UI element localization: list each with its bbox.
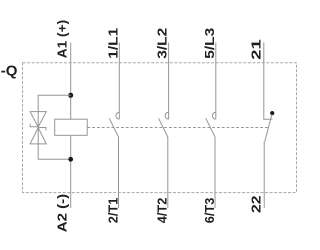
- svg-text:1/L1: 1/L1: [105, 28, 120, 59]
- svg-text:2/T1: 2/T1: [105, 198, 120, 224]
- node: junction A1/suppressor: [68, 93, 73, 98]
- main contact pole 3: fixed contact hook: [212, 112, 215, 119]
- coil A1-A2: [55, 119, 87, 135]
- main contact pole 1: lower terminal wire to 2/T1: [118, 137, 120, 208]
- wire A1 to coil: [70, 43, 72, 120]
- mechanical linkage (dashed): [87, 127, 268, 129]
- svg-text:4/T2: 4/T2: [155, 198, 170, 224]
- main contact pole 1: fixed contact hook: [116, 112, 119, 119]
- main contact pole 2: lower terminal wire to 4/T2: [167, 137, 169, 208]
- svg-text:5/L3: 5/L3: [202, 28, 217, 59]
- wire coil to A2: [70, 135, 72, 208]
- svg-text:-Q: -Q: [1, 63, 18, 80]
- main contact pole 3: upper terminal wire: [215, 43, 217, 120]
- main contact pole 3: moving blade: [206, 118, 215, 137]
- main contact pole 3: lower terminal wire to 6/T3: [214, 137, 216, 208]
- main contact pole 2: fixed contact hook: [165, 112, 168, 119]
- enclosure outline (dashed): [23, 63, 297, 193]
- aux contact 21-22: lower terminal wire to 22: [263, 142, 265, 209]
- svg-text:6/T3: 6/T3: [202, 198, 217, 224]
- wire suppressor branch: [38, 95, 70, 159]
- main contact pole 2: moving blade: [159, 118, 168, 137]
- aux contact 21-22: upper terminal wire: [264, 43, 273, 120]
- svg-text:3/L2: 3/L2: [155, 28, 170, 59]
- svg-text:A1 (+): A1 (+): [55, 20, 70, 59]
- aux contact 21-22: pivot dot: [270, 111, 274, 115]
- main contact pole 2: upper terminal wire: [168, 43, 170, 120]
- svg-text:A2 (-): A2 (-): [54, 194, 69, 233]
- main contact pole 1: upper terminal wire: [118, 43, 120, 120]
- svg-text:21: 21: [248, 39, 263, 60]
- aux contact 21-22: moving blade: [265, 114, 272, 141]
- surge suppressor F (bidirectional): [30, 112, 46, 144]
- node: junction A2/suppressor: [68, 157, 73, 162]
- svg-text:22: 22: [248, 196, 263, 214]
- main contact pole 1: moving blade: [109, 118, 118, 137]
